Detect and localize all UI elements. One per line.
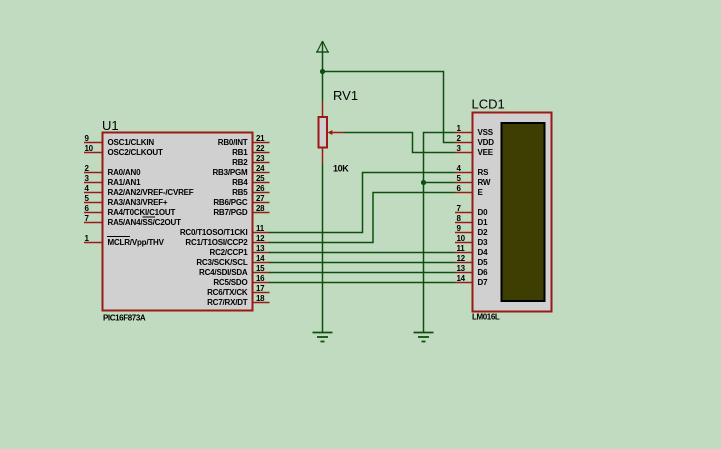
svg-text:VDD: VDD: [478, 138, 495, 147]
LCD1 pin 1 (VSS): [455, 124, 494, 137]
svg-text:LCD1: LCD1: [472, 97, 505, 112]
svg-text:14: 14: [256, 254, 265, 263]
LCD1 pin 6 (E): [455, 184, 484, 197]
U1 pin 24 (RB3/PGM): [212, 164, 269, 177]
svg-text:OSC2/CLKOUT: OSC2/CLKOUT: [108, 148, 163, 157]
svg-text:D2: D2: [478, 228, 489, 237]
LCD1 pin 14 (D7): [455, 274, 488, 287]
RV1 wiper arrow and stub: [327, 130, 344, 135]
junction node RW/ground net: [421, 180, 426, 185]
wire U1 RC0 pin 11 to LCD RS pin 4: [269, 173, 455, 233]
svg-text:10: 10: [457, 234, 466, 243]
svg-text:10: 10: [85, 144, 94, 153]
svg-text:RW: RW: [478, 178, 491, 187]
LCD1 pin 2 (VDD): [455, 134, 494, 147]
svg-text:15: 15: [256, 264, 265, 273]
svg-text:PIC16F873A: PIC16F873A: [103, 314, 146, 323]
U1 pin 7 (RA5/AN4/SS/C2OUT): [84, 214, 181, 227]
LCD1 pin 3 (VEE): [455, 144, 494, 157]
wire U1 RC3 pin 14 to LCD D5 pin 12: [269, 262, 455, 264]
svg-text:21: 21: [256, 134, 265, 143]
LCD1 reference label: [472, 97, 505, 112]
svg-text:LM016L: LM016L: [472, 313, 500, 322]
svg-text:RB2: RB2: [232, 158, 248, 167]
U1 pin 25 (RB4): [232, 174, 269, 187]
RV1 value 10K: [333, 164, 349, 174]
RV1 top terminal stub: [322, 101, 324, 117]
svg-text:24: 24: [256, 164, 265, 173]
svg-text:RA0/AN0: RA0/AN0: [108, 168, 142, 177]
svg-text:RS: RS: [478, 168, 490, 177]
svg-text:11: 11: [256, 224, 265, 233]
svg-text:RA4/T0CKI/C1OUT: RA4/T0CKI/C1OUT: [108, 208, 176, 217]
svg-text:12: 12: [457, 254, 466, 263]
svg-text:D3: D3: [478, 238, 489, 247]
U1 pin 17 (RC6/TX/CK): [207, 284, 269, 297]
wire U1 RC1 pin 12 to LCD E pin 6: [269, 193, 455, 243]
svg-text:D0: D0: [478, 208, 489, 217]
ground symbol (right, VSS/RW net): [414, 333, 434, 342]
svg-text:RB4: RB4: [232, 178, 248, 187]
svg-text:RC6/TX/CK: RC6/TX/CK: [207, 288, 248, 297]
U1 pin 6 (RA4/T0CKI/C1OUT): [84, 204, 175, 217]
svg-text:OSC1/CLKIN: OSC1/CLKIN: [108, 138, 155, 147]
svg-text:RA5/AN4/SS/C2OUT: RA5/AN4/SS/C2OUT: [108, 218, 182, 227]
RV1 bottom terminal stub: [322, 148, 324, 164]
U1 pin 18 (RC7/RX/DT): [207, 294, 269, 307]
U1 pin 14 (RC3/SCK/SCL): [196, 254, 269, 267]
power symbol VCC arrow: [316, 41, 329, 52]
svg-text:RC3/SCK/SCL: RC3/SCK/SCL: [196, 258, 247, 267]
U1 pin 15 (RC4/SDI/SDA): [199, 264, 269, 277]
svg-text:D5: D5: [478, 258, 489, 267]
U1 pin 12 (RC1/T1OSI/CCP2): [185, 234, 269, 247]
LCD1 pin 5 (RW): [455, 174, 491, 187]
U1 pin 13 (RC2/CCP1): [210, 244, 270, 257]
microcontroller U1 PIC16F873A body: [103, 133, 253, 311]
svg-text:RB1: RB1: [232, 148, 248, 157]
ground symbol (left, under RV1): [313, 333, 333, 342]
wire RV1 bottom to left ground: [322, 164, 324, 333]
U1 pin 26 (RB5): [232, 184, 269, 197]
svg-text:VEE: VEE: [478, 148, 494, 157]
U1 pin 5 (RA3/AN3/VREF+): [84, 194, 168, 207]
svg-text:D1: D1: [478, 218, 489, 227]
svg-text:RA2/AN2/VREF-/CVREF: RA2/AN2/VREF-/CVREF: [108, 188, 194, 197]
LCD1 display screen: [502, 123, 545, 301]
wire power rail to LCD VDD pin 2: [323, 72, 456, 143]
svg-text:RC5/SDO: RC5/SDO: [213, 278, 247, 287]
svg-text:D7: D7: [478, 278, 489, 287]
LCD1 pin 9 (D2): [455, 224, 488, 237]
svg-text:18: 18: [256, 294, 265, 303]
svg-text:10K: 10K: [333, 164, 349, 174]
U1 pin 23 (RB2): [232, 154, 269, 167]
svg-text:RC4/SDI/SDA: RC4/SDI/SDA: [199, 268, 248, 277]
U1 pin 1 (MCLR/Vpp/THV): [84, 234, 165, 247]
svg-text:25: 25: [256, 174, 265, 183]
LCD1 pin 12 (D5): [455, 254, 488, 267]
svg-text:RB5: RB5: [232, 188, 248, 197]
LCD1 pin 8 (D1): [455, 214, 488, 227]
LCD1 pin 4 (RS): [455, 164, 489, 177]
svg-text:RC0/T1OSO/T1CKI: RC0/T1OSO/T1CKI: [180, 228, 248, 237]
svg-text:RC2/CCP1: RC2/CCP1: [210, 248, 249, 257]
svg-text:D4: D4: [478, 248, 489, 257]
svg-text:14: 14: [457, 274, 466, 283]
wire U1 RC5 pin 16 to LCD D7 pin 14: [269, 282, 455, 284]
svg-text:VSS: VSS: [478, 128, 494, 137]
svg-text:16: 16: [256, 274, 265, 283]
wire LCD RW pin 5 branch to ground net: [424, 182, 456, 184]
svg-text:RA3/AN3/VREF+: RA3/AN3/VREF+: [108, 198, 168, 207]
U1 pin 2 (RA0/AN0): [84, 164, 141, 177]
U1 pin 16 (RC5/SDO): [213, 274, 269, 287]
U1 part value PIC16F873A: [103, 314, 146, 323]
svg-text:RC7/RX/DT: RC7/RX/DT: [207, 298, 248, 307]
U1 pin 27 (RB6/PGC): [213, 194, 269, 207]
U1 pin 1 MCLR overline: [107, 236, 130, 238]
LCD1 pin 10 (D3): [455, 234, 488, 247]
svg-text:MCLR/Vpp/THV: MCLR/Vpp/THV: [108, 238, 165, 247]
U1 pin 22 (RB1): [232, 144, 269, 157]
svg-text:22: 22: [256, 144, 265, 153]
U1 reference label: [102, 118, 119, 133]
svg-text:D6: D6: [478, 268, 489, 277]
svg-text:E: E: [478, 188, 484, 197]
svg-text:RV1: RV1: [333, 88, 358, 103]
junction node power/RV1: [320, 69, 325, 74]
svg-text:RB7/PGD: RB7/PGD: [213, 208, 248, 217]
svg-text:RC1/T1OSI/CCP2: RC1/T1OSI/CCP2: [185, 238, 248, 247]
U1 pin 7 SS overline: [143, 216, 156, 218]
svg-text:12: 12: [256, 234, 265, 243]
U1 pin 28 (RB7/PGD): [213, 204, 269, 217]
svg-text:RB0/INT: RB0/INT: [218, 138, 248, 147]
svg-text:17: 17: [256, 284, 265, 293]
svg-text:23: 23: [256, 154, 265, 163]
svg-text:RA1/AN1: RA1/AN1: [108, 178, 142, 187]
U1 pin 11 (RC0/T1OSO/T1CKI): [180, 224, 270, 237]
wire U1 RC4 pin 15 to LCD D6 pin 13: [269, 272, 455, 274]
U1 pin 10 (OSC2/CLKOUT): [84, 144, 163, 157]
U1 pin 4 (RA2/AN2/VREF-/CVREF): [84, 184, 194, 197]
wire RV1 wiper to LCD VEE pin 3: [344, 133, 455, 153]
U1 pin 3 (RA1/AN1): [84, 174, 141, 187]
svg-text:U1: U1: [102, 118, 119, 133]
svg-text:28: 28: [256, 204, 265, 213]
RV1 reference label: [333, 88, 358, 103]
svg-text:13: 13: [457, 264, 466, 273]
svg-text:11: 11: [457, 244, 466, 253]
LCD1 pin 7 (D0): [455, 204, 488, 217]
potentiometer RV1 body: [319, 117, 328, 148]
LCD1 LM016L body: [473, 113, 552, 312]
svg-text:13: 13: [256, 244, 265, 253]
svg-text:27: 27: [256, 194, 265, 203]
svg-text:RB6/PGC: RB6/PGC: [213, 198, 248, 207]
U1 pin 21 (RB0/INT): [218, 134, 270, 147]
wire power rail to RV1 top: [322, 52, 324, 102]
svg-text:26: 26: [256, 184, 265, 193]
wire LCD VSS pin 1 to right ground: [424, 133, 456, 333]
LCD1 pin 11 (D4): [455, 244, 488, 257]
U1 pin 9 (OSC1/CLKIN): [84, 134, 154, 147]
wire U1 RC2 pin 13 to LCD D4 pin 11: [269, 252, 455, 254]
svg-text:RB3/PGM: RB3/PGM: [212, 168, 248, 177]
LCD1 pin 13 (D6): [455, 264, 488, 277]
LCD1 part value LM016L: [472, 313, 500, 322]
